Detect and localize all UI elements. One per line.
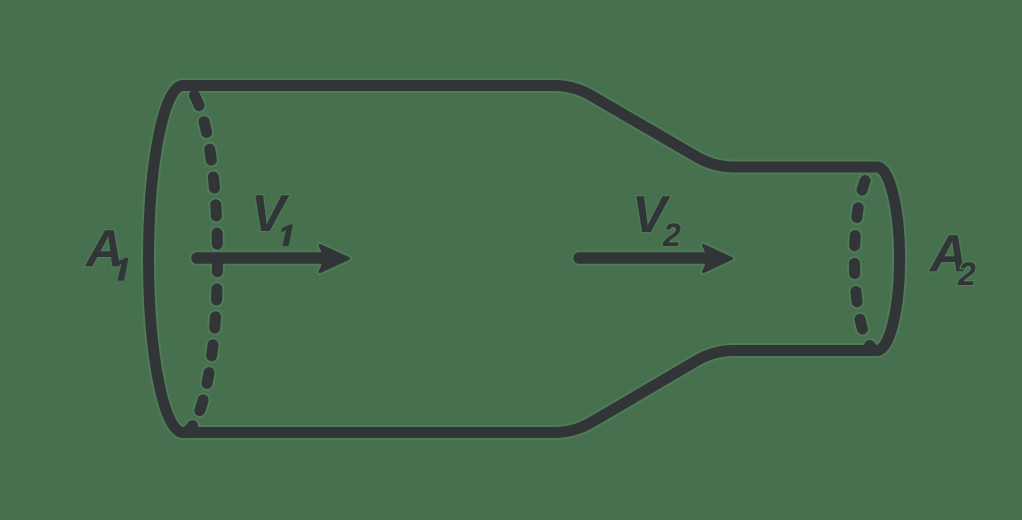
svg-text:V: V — [251, 185, 290, 243]
label V1 subscript 1 — [281, 225, 293, 247]
node A2: outlet face solid right arc of small ellipse — [877, 167, 900, 351]
node A1: inlet face solid left arc of large ellipse — [149, 86, 183, 433]
node A2: outlet face dashed left arc of small ellipse — [854, 167, 877, 351]
label A1 subscript 1 — [116, 258, 128, 281]
arrow V2 shaft — [579, 252, 707, 264]
arrow V2 head — [704, 246, 732, 272]
arrow V1 head — [320, 246, 349, 272]
svg-text:2: 2 — [957, 256, 976, 292]
wire: light casing halo around pipe outline — [149, 86, 900, 433]
svg-text:A: A — [84, 220, 124, 278]
wire: pipe top wall (wide section, taper, narrow section) — [183, 86, 877, 168]
node A1: inlet face dashed right arc of large ellipse — [183, 86, 217, 433]
arrow V1 shaft — [197, 252, 324, 264]
svg-text:2: 2 — [662, 217, 681, 253]
wire: pipe bottom wall (wide section, taper, narrow section) — [183, 351, 877, 433]
